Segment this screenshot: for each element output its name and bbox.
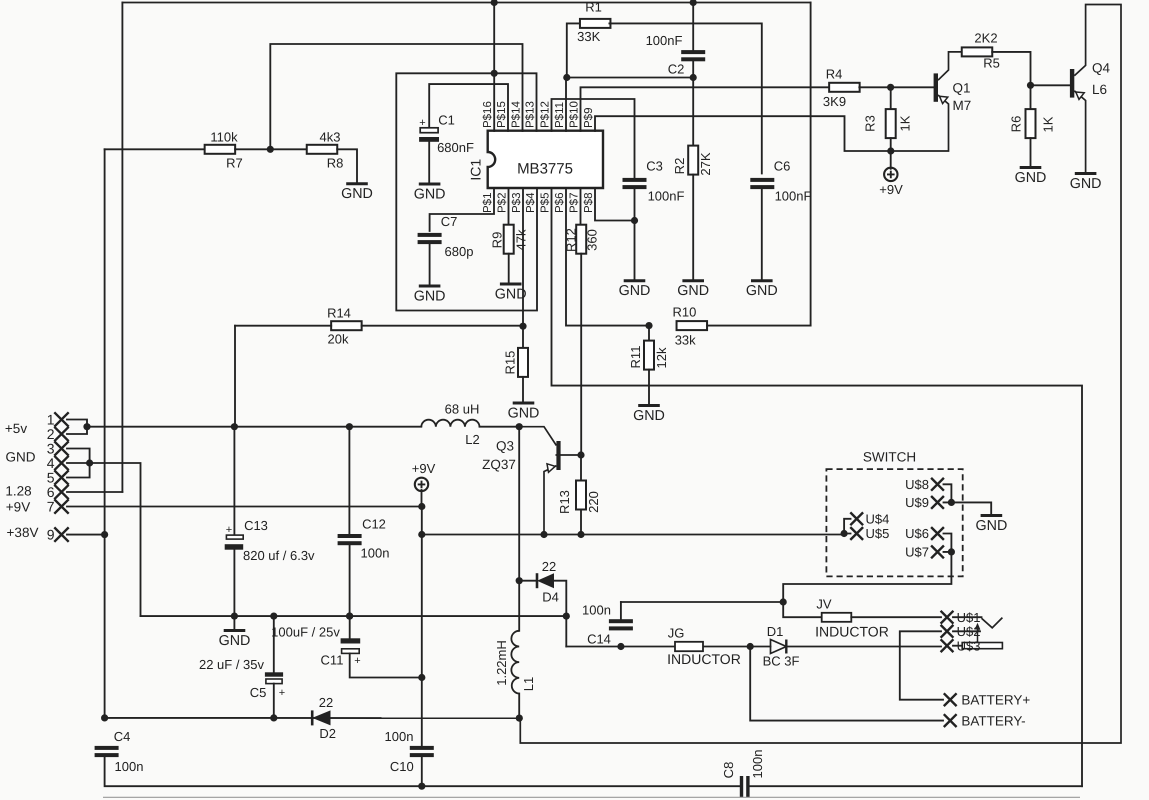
resistor R7: [205, 145, 236, 154]
svg-text:100n: 100n: [582, 603, 611, 618]
wire R8 right to ground: [337, 149, 357, 183]
wire +9V to switch U$4/U$5: [422, 534, 844, 536]
resistor R5: [962, 47, 993, 56]
wire pin 4 stub: [67, 462, 90, 464]
junction +9V / C11 bottom: [418, 674, 425, 681]
svg-text:M7: M7: [953, 98, 972, 113]
svg-text:GND: GND: [633, 408, 665, 424]
svg-text:C8: C8: [721, 762, 736, 779]
junction pin 9 / +38V line: [101, 531, 108, 538]
junction C10 / bottom rail: [418, 783, 425, 790]
svg-text:+: +: [226, 524, 232, 536]
wire C3 bottom to ground: [634, 189, 636, 281]
connector pin 9 X: [54, 527, 68, 541]
diode D4 (22): [536, 573, 539, 588]
junction U$9 bracket: [948, 499, 955, 506]
resistor R2: [688, 146, 698, 175]
wire C14 top to JV/switch junction: [621, 601, 783, 603]
ground below R2: [682, 279, 704, 282]
resistor R12: [576, 225, 586, 254]
wire R9 bottom to ground: [508, 254, 510, 284]
junction C14 bottom: [617, 643, 624, 650]
svg-text:1.22mH: 1.22mH: [494, 640, 509, 686]
svg-text:1K: 1K: [1041, 116, 1056, 132]
switch pin U$4 X: [850, 512, 863, 525]
svg-text:P$13: P$13: [525, 101, 537, 128]
junction C5 / GND rail: [270, 613, 277, 620]
ground below C3: [624, 279, 646, 282]
junction P$3 / R14 / R15: [519, 323, 526, 330]
svg-text:GND: GND: [1015, 170, 1047, 186]
svg-text:GND: GND: [677, 283, 709, 299]
svg-text:4k3: 4k3: [320, 130, 341, 145]
svg-text:JG: JG: [668, 625, 685, 640]
diode D1 (BC 3F): [771, 640, 787, 654]
ground below R15: [513, 402, 535, 405]
svg-text:IC1: IC1: [468, 159, 484, 181]
wire pin P$7 to R12: [580, 188, 582, 225]
wire pin P$9 to R3 bottom: [595, 116, 891, 151]
svg-text:P$2: P$2: [497, 193, 509, 213]
svg-text:R1: R1: [585, 0, 602, 15]
svg-text:GND: GND: [508, 405, 540, 421]
wire pin P$16 up to top rail: [493, 3, 495, 132]
ground below C1: [419, 183, 441, 186]
ground near switch: [981, 514, 1003, 517]
svg-text:SWITCH: SWITCH: [863, 450, 916, 465]
svg-text:R7: R7: [226, 156, 243, 171]
wire pin P$13 to P$4 loop: [396, 73, 537, 310]
svg-text:C10: C10: [390, 759, 414, 774]
wire R15 bottom to ground: [522, 377, 524, 403]
svg-text:68 uH: 68 uH: [445, 402, 480, 417]
wire R11 bottom to ground: [648, 370, 650, 406]
wire pin P$2 to R9: [508, 188, 510, 225]
small up-arrow at U$2: [977, 628, 979, 643]
pin U$2 X: [941, 625, 954, 638]
wire R5 right to R6/Q4 base: [992, 52, 1030, 109]
wire top rail: [122, 2, 810, 4]
capacitor C12 plates: [338, 534, 362, 538]
junction D4 / L1: [516, 577, 523, 584]
svg-text:33k: 33k: [675, 333, 696, 348]
resistor R3: [886, 109, 896, 138]
wire L2 junction down to D4/L1: [518, 427, 520, 581]
wire right vertical of top rail to R10: [810, 3, 812, 326]
svg-text:R2: R2: [672, 158, 687, 175]
junction GND bracket: [86, 459, 93, 466]
resistor R9: [504, 225, 514, 254]
wire C4 bottom to bottom rail (left part): [105, 757, 742, 786]
wire P$11 to C2 bottom: [567, 77, 693, 79]
svg-text:P$16: P$16: [482, 101, 494, 128]
junction Q3 emitter / switch wire: [540, 531, 547, 538]
wire C2 top to rail: [692, 3, 694, 51]
svg-text:R10: R10: [672, 305, 696, 320]
wire BATTERY- to D1 junction: [750, 647, 943, 721]
svg-text:27K: 27K: [698, 152, 713, 175]
wire D1 to U$3: [786, 646, 941, 648]
capacitor C3: [623, 178, 647, 182]
resistor R8: [307, 145, 338, 154]
svg-text:100n: 100n: [385, 729, 414, 744]
ground below C7: [419, 285, 441, 288]
junction L2 / Q3 collector / D4 line: [516, 423, 523, 430]
resistor R4: [829, 83, 860, 92]
switch pin U$5 X: [850, 527, 863, 540]
svg-text:22: 22: [542, 559, 556, 574]
+9V supply symbol (mid): [415, 478, 428, 491]
junction P$8 / C3 bottom: [631, 217, 638, 224]
svg-text:C11: C11: [321, 653, 344, 668]
wire GND net down: [90, 463, 141, 616]
resistor R13: [576, 481, 586, 510]
transistor Q4 (L6): [1070, 69, 1074, 98]
junction R5 / R6 / Q4 base: [1027, 82, 1034, 89]
svg-text:P$7: P$7: [569, 193, 581, 213]
svg-text:U$4: U$4: [866, 512, 890, 527]
wire +9V symbol stub: [421, 490, 423, 507]
wire pin P$8 to C3 bottom: [595, 188, 635, 221]
junction top rail / C2: [690, 0, 697, 6]
junction L1 / D2 wire / Q4 loop: [516, 715, 523, 722]
wire U$8-U$9 bracket: [944, 484, 952, 502]
wire to R7 left: [105, 148, 205, 150]
connector pin 7 X: [54, 499, 68, 513]
svg-text:GND: GND: [341, 186, 373, 202]
ground below R11: [638, 404, 660, 407]
junction R13 / switch wire: [577, 531, 584, 538]
svg-text:P$1: P$1: [482, 193, 494, 213]
junction D4 line / GND rail end: [563, 613, 570, 620]
svg-text:+: +: [419, 117, 425, 129]
wire D4 cathode lead: [519, 580, 537, 582]
junction C5 / D2 wire: [270, 714, 277, 721]
connector pin 2 X: [54, 427, 68, 441]
svg-text:L2: L2: [465, 432, 479, 447]
wire pin P$12 to C3 top: [552, 99, 635, 179]
checkmark squiggle at U$1: [982, 618, 1003, 628]
wire pins 3-4-5 bracket (GND): [67, 449, 90, 478]
resistor R15: [518, 348, 528, 377]
junction C13 / GND rail: [231, 613, 238, 620]
svg-text:20k: 20k: [328, 332, 349, 347]
wire C10 bottom: [421, 757, 423, 786]
junction top rail / P$16: [491, 0, 498, 6]
capacitor C2: [681, 50, 705, 54]
junction P$16 / P$13-P$4 wire: [491, 70, 498, 77]
svg-text:BATTERY+: BATTERY+: [961, 693, 1030, 708]
connector pin 3 X: [54, 441, 68, 455]
wire Q3 base to R12/R13: [556, 454, 581, 456]
svg-text:33K: 33K: [577, 29, 600, 44]
wire pin P$10 to R4: [581, 87, 830, 131]
ground below R6: [1020, 166, 1042, 169]
junction R3 / P$9 / Q1 emitter / +9V: [887, 147, 894, 154]
svg-text:P$6: P$6: [554, 193, 566, 213]
wire bottom rail right part: [750, 785, 1082, 787]
svg-text:GND: GND: [414, 186, 446, 202]
wire R14 to +5v rail: [234, 326, 236, 427]
svg-text:GND: GND: [6, 450, 36, 465]
svg-text:U$5: U$5: [866, 526, 890, 541]
wire JV left lead: [783, 602, 822, 617]
bar symbol at U$3: [962, 643, 1002, 649]
wire L1 bottom lead: [518, 694, 520, 719]
svg-text:2K2: 2K2: [974, 31, 997, 46]
svg-text:BC 3F: BC 3F: [763, 654, 800, 669]
svg-text:GND: GND: [619, 283, 651, 299]
svg-text:+: +: [354, 655, 360, 667]
svg-text:47k: 47k: [514, 229, 529, 250]
svg-text:100nF: 100nF: [648, 189, 685, 204]
resistor R14: [331, 321, 362, 330]
wire GND rail horizontal: [141, 615, 567, 617]
svg-text:MB3775: MB3775: [517, 161, 573, 178]
switch pin U$8 X: [931, 478, 944, 491]
svg-text:U$3: U$3: [957, 639, 981, 654]
svg-text:U$1: U$1: [957, 610, 981, 625]
svg-text:INDUCTOR: INDUCTOR: [667, 651, 741, 667]
wire to Q4 base: [1031, 84, 1070, 86]
ground below C6: [751, 279, 773, 282]
svg-text:U$8: U$8: [905, 477, 929, 492]
svg-text:+9V: +9V: [879, 182, 903, 197]
wire C5 top lead: [273, 616, 275, 672]
wire C12 bottom: [349, 545, 351, 616]
resistor R10: [677, 321, 708, 330]
junction +9V rail end: [418, 503, 425, 510]
svg-text:GND: GND: [976, 518, 1008, 534]
junction U$7 bracket: [948, 548, 955, 555]
resistor R6: [1026, 109, 1036, 138]
svg-text:C2: C2: [668, 62, 685, 77]
svg-text:100uF / 25v: 100uF / 25v: [271, 625, 340, 640]
junction C2 / R2: [690, 74, 697, 81]
svg-text:Q4: Q4: [1092, 61, 1111, 76]
svg-text:R6: R6: [1009, 116, 1024, 133]
svg-text:INDUCTOR: INDUCTOR: [815, 623, 889, 639]
capacitor C6: [750, 178, 774, 182]
wire C1 bottom to ground: [428, 142, 430, 184]
wire C13 bottom: [233, 550, 235, 616]
+9V supply symbol (near R3): [884, 168, 897, 181]
wire pin P$14 to R7/R8 junction: [270, 44, 522, 149]
wire C2 bottom: [692, 61, 694, 77]
wire U$2 stub through label: [953, 630, 980, 632]
svg-text:P$11: P$11: [554, 102, 566, 128]
svg-text:R11: R11: [628, 346, 643, 369]
svg-text:22 uF / 35v: 22 uF / 35v: [199, 657, 265, 672]
svg-text:100n: 100n: [361, 546, 390, 561]
svg-text:R3: R3: [863, 115, 878, 132]
wire pin 6 to 1.28 net: [67, 491, 122, 493]
svg-text:+38V: +38V: [7, 525, 39, 540]
wire pin 9 +38V: [67, 534, 105, 536]
capacitor C7: [418, 233, 442, 237]
svg-text:R4: R4: [826, 67, 843, 82]
wire U$2 to BATTERY+: [900, 631, 943, 699]
svg-text:+: +: [279, 687, 285, 699]
faint scan line at bottom: [103, 796, 1080, 798]
IC U1 body MB3775: [488, 131, 603, 188]
wire C6 bottom to ground: [761, 189, 763, 281]
junction D1 / battery- wire: [747, 643, 754, 650]
wire R12 bottom to Q3 base / R13: [580, 254, 582, 455]
svg-text:U$9: U$9: [905, 495, 929, 510]
wire R14 right to P$3/R15: [362, 325, 523, 327]
switch pin U$6 X: [931, 527, 944, 540]
wire C13 top lead: [233, 427, 235, 535]
junction R4 / R3 / Q1 base: [887, 84, 894, 91]
svg-text:P$15: P$15: [496, 101, 508, 128]
wire +38V vertical (R7 to C4): [104, 149, 106, 718]
dashed box SWITCH: [826, 469, 962, 576]
svg-text:GND: GND: [746, 283, 778, 299]
wire R2 to ground: [692, 175, 694, 281]
junction +5v bracket: [83, 423, 90, 430]
junction C12 / GND rail: [346, 613, 353, 620]
wire D4 anode down: [554, 581, 566, 647]
svg-text:Q1: Q1: [953, 81, 971, 96]
svg-text:ZQ37: ZQ37: [482, 457, 516, 472]
wire R1 left lead: [567, 23, 581, 77]
svg-text:C14: C14: [587, 632, 611, 647]
ground below R9: [500, 283, 522, 286]
inductor JV (box symbol): [822, 613, 852, 622]
wire C11 top lead: [349, 616, 351, 638]
ground below Q4 emitter: [1075, 172, 1097, 175]
svg-text:12k: 12k: [654, 347, 669, 368]
capacitor C11 (electrolytic 100uF/25v): [346, 613, 353, 620]
junction C4 / +38V line: [101, 714, 108, 721]
svg-text:BATTERY-: BATTERY-: [961, 713, 1025, 728]
wire U$9 to ground: [951, 502, 991, 515]
svg-text:GND: GND: [1070, 176, 1102, 192]
svg-text:R8: R8: [327, 156, 344, 171]
wire R1 right to C6 top: [609, 23, 761, 173]
wire pin P$1 to C7 top: [430, 188, 494, 231]
svg-text:R9: R9: [490, 232, 505, 249]
diode D2 (22): [311, 710, 314, 725]
capacitor C10 plates: [410, 746, 434, 750]
wire R13 top: [580, 455, 582, 481]
wire +5v rail to L2: [87, 426, 421, 428]
wire C5 bottom: [273, 684, 275, 718]
wire pin P$11 up: [565, 78, 567, 132]
svg-text:1.28: 1.28: [5, 483, 31, 498]
svg-text:680p: 680p: [445, 244, 474, 259]
wire pin P$5 big loop right: [552, 188, 1083, 786]
inductor JG (box symbol): [675, 642, 703, 651]
svg-text:C13: C13: [244, 518, 268, 533]
capacitor C8 (100n, in bottom rail): [740, 776, 743, 798]
wire U$7 down to C14/JV junction: [783, 552, 951, 602]
svg-text:C7: C7: [441, 214, 458, 229]
wire R10 right to top-rail vertical: [707, 325, 811, 327]
svg-text:P$4: P$4: [525, 192, 537, 213]
wire L2 right: [480, 426, 520, 428]
junction Q3 base / R12 / R13: [577, 451, 584, 458]
svg-text:L6: L6: [1092, 82, 1107, 97]
svg-text:+9V: +9V: [6, 499, 30, 514]
wire R7 to R8: [235, 148, 307, 150]
svg-text:680nF: 680nF: [437, 140, 474, 155]
junction U$5 bracket / switch wire: [841, 530, 848, 537]
svg-text:820 uf / 6.3v: 820 uf / 6.3v: [243, 548, 315, 563]
wire L1 top lead: [518, 581, 520, 631]
capacitor C4 plates: [95, 746, 119, 750]
pin BATTERY- X: [944, 714, 957, 727]
svg-text:P$8: P$8: [583, 193, 595, 213]
wire R14 left lead: [235, 325, 331, 327]
connector pin 1 X: [54, 412, 68, 426]
svg-text:100n: 100n: [750, 750, 765, 779]
svg-text:U$7: U$7: [905, 545, 929, 560]
wire U$6-U$7 bracket: [944, 534, 952, 552]
wire pin P$15 to C1 top: [429, 84, 508, 131]
wire C11 bottom to +9V line: [350, 653, 422, 677]
wire C14 bottom / JG row: [566, 646, 770, 648]
svg-text:C5: C5: [250, 685, 267, 700]
wire C2 to R2: [692, 78, 694, 146]
svg-text:JV: JV: [816, 596, 832, 611]
svg-text:P$12: P$12: [540, 101, 552, 128]
wire R4 to Q1 base: [859, 86, 933, 88]
ground below C13: [224, 629, 246, 632]
wire U$1 stub through label: [953, 616, 982, 618]
wire C7 bottom to ground: [429, 244, 431, 286]
svg-text:L1: L1: [521, 677, 536, 691]
svg-text:R5: R5: [983, 56, 1000, 71]
svg-text:D1: D1: [767, 624, 784, 639]
wire pin P$3 to R15: [522, 188, 524, 348]
svg-text:Q3: Q3: [496, 439, 514, 454]
svg-text:D2: D2: [319, 726, 336, 741]
wire left vertical to pin 6 (1.28 net): [121, 3, 123, 492]
junction R7/R8/P$14: [267, 146, 274, 153]
svg-text:P$5: P$5: [540, 193, 552, 213]
svg-text:R14: R14: [327, 306, 351, 321]
svg-text:P$14: P$14: [511, 101, 523, 128]
svg-text:3K9: 3K9: [823, 94, 846, 109]
junction C12 / +5v rail: [346, 423, 353, 430]
svg-text:C4: C4: [114, 729, 131, 744]
svg-text:R13: R13: [557, 490, 572, 514]
connector pin 4 X: [54, 456, 68, 470]
wire pins 1-2 bracket (+5v): [67, 420, 87, 435]
capacitor C1 (electrolytic 680nF): [420, 128, 438, 133]
svg-text:D4: D4: [542, 590, 559, 605]
pin U$3 X: [941, 639, 954, 652]
svg-text:360: 360: [585, 229, 600, 251]
svg-text:+9V: +9V: [412, 461, 436, 476]
wire U$4-U$5 bracket: [844, 519, 850, 534]
junction R10 / R11 / P$6: [645, 322, 652, 329]
svg-text:7: 7: [47, 499, 55, 515]
connector pin 6 X: [54, 485, 68, 499]
wire R6 bottom to ground: [1030, 138, 1032, 167]
svg-text:100nF: 100nF: [775, 189, 812, 204]
svg-text:R15: R15: [503, 351, 518, 375]
wire U$3 stub: [953, 645, 963, 647]
wire R3 bottom to +9V: [890, 138, 892, 169]
wire stub: [565, 77, 568, 79]
svg-text:GND: GND: [495, 286, 527, 302]
connector pin 5 X: [54, 470, 68, 484]
resistor R11: [644, 341, 654, 370]
junction +9V / switch wire: [418, 531, 425, 538]
